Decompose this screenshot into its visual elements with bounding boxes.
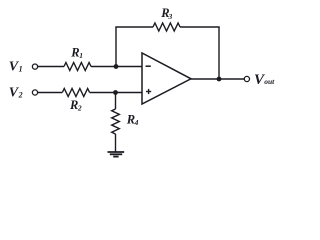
resistor R2	[62, 89, 89, 97]
wire junction to R4	[115, 93, 117, 110]
wire R4 to ground	[115, 134, 117, 152]
svg-text:2: 2	[77, 104, 82, 113]
label V2	[9, 86, 23, 101]
label V1	[9, 60, 23, 75]
wire feedback top left	[115, 26, 153, 28]
op-amp inverting pin minus sign	[146, 65, 151, 67]
label R3	[160, 6, 172, 21]
wire output	[191, 78, 244, 80]
wire V2 lead	[38, 92, 63, 94]
node output junction	[217, 77, 222, 82]
resistor R4	[112, 109, 120, 134]
wire R1 to inverting input	[91, 66, 142, 68]
label R2	[69, 98, 82, 113]
label R1	[70, 45, 83, 60]
node junction at noninverting input	[113, 90, 118, 95]
op-amp noninverting pin plus sign	[146, 89, 151, 94]
ground	[108, 152, 125, 157]
resistor R1	[64, 63, 91, 71]
label Vout	[254, 72, 275, 88]
resistor R3	[153, 23, 180, 31]
wire feedback left vertical	[115, 27, 117, 67]
label R4	[126, 112, 139, 127]
terminal V1	[32, 64, 37, 69]
svg-text:1: 1	[19, 65, 23, 74]
svg-text:out: out	[264, 77, 275, 86]
svg-text:2: 2	[18, 91, 23, 100]
svg-text:4: 4	[134, 118, 139, 127]
svg-text:1: 1	[79, 51, 83, 60]
svg-text:3: 3	[168, 12, 173, 21]
terminal V2	[32, 90, 37, 95]
terminal Vout	[244, 76, 249, 81]
wire V1 lead	[38, 66, 64, 68]
wire R2 to noninverting input	[90, 92, 142, 94]
op-amp U1	[142, 53, 191, 104]
node junction at inverting input	[114, 64, 119, 69]
wire feedback top right	[180, 26, 220, 28]
wire feedback right vertical	[218, 27, 220, 79]
